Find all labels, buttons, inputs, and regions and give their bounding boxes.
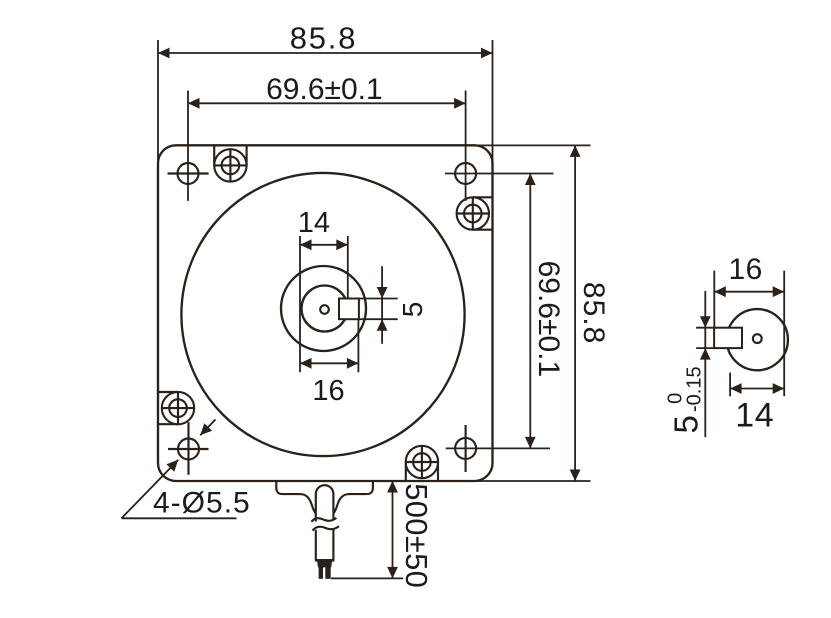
svg-text:500±50: 500±50	[399, 483, 434, 588]
cable skirt right	[333, 481, 373, 514]
side dim 5 tolerance: dimension line	[704, 291, 706, 437]
dim 500: extension line at wire end	[331, 577, 403, 579]
shaft boss circle	[281, 266, 366, 351]
svg-text:5: 5	[668, 415, 705, 433]
cable break squiggle upper	[312, 518, 337, 522]
svg-text:5: 5	[397, 302, 428, 318]
dim 69.6 top: extension lines	[188, 91, 466, 201]
crosshair bottom-left hole	[168, 422, 209, 475]
arrow 16 left	[300, 358, 312, 369]
cable break squiggle lower	[313, 526, 340, 530]
dim 69.6 top: dimension line	[188, 102, 466, 104]
boss bottom-right	[406, 446, 438, 478]
key rectangle on shaft	[339, 299, 359, 320]
arrow right-69.6 down	[525, 437, 536, 449]
dim 16: extension line	[357, 320, 359, 373]
cable tube lower	[316, 528, 334, 560]
bracket boss top-left	[214, 145, 246, 165]
dim 85.8 top: dimension line	[158, 52, 493, 54]
side dim 16: dimension line	[714, 291, 784, 293]
arrow 5 up	[377, 319, 388, 331]
dim 500: dimension line	[392, 481, 394, 578]
shaft circle	[302, 286, 348, 332]
pilot circle (motor face)	[181, 173, 464, 456]
arrow side-5 down	[700, 316, 711, 328]
motor body outline	[158, 145, 493, 481]
arrow 500 down	[387, 567, 398, 579]
cable tube bottom bar	[315, 559, 334, 562]
dim 85.8 top: extension lines	[158, 40, 493, 163]
arrow 14 right	[336, 239, 348, 250]
cable cap block	[318, 562, 331, 567]
dim 14: dimension line	[300, 244, 348, 246]
crosshair bottom-right hole vertical	[465, 425, 467, 472]
arrow short leader	[200, 423, 212, 435]
bracket boss top-right	[473, 197, 493, 229]
svg-text:85.8: 85.8	[577, 282, 610, 344]
crosshair top-left hole	[168, 172, 209, 174]
arrow side-14 right	[773, 383, 785, 394]
arrow right-85.8 down	[570, 470, 581, 482]
mounting hole top-left	[178, 163, 199, 184]
side dim 16: extension lines	[714, 271, 784, 397]
crosshair boss top-left	[214, 149, 248, 183]
boss top-left	[214, 149, 246, 181]
arrow 5 down	[377, 287, 388, 299]
arrow right-85.8 up	[570, 145, 581, 157]
svg-text:14: 14	[298, 207, 330, 239]
shaft center dot	[320, 305, 329, 314]
svg-text:14: 14	[735, 397, 774, 435]
arrow side-16 left	[714, 286, 726, 297]
arrow side-5 up	[700, 348, 711, 360]
cable skirt left	[276, 481, 316, 514]
arrow 69.6 right	[454, 98, 466, 109]
arrow 16 right	[347, 358, 359, 369]
svg-text:69.6±0.1: 69.6±0.1	[532, 261, 565, 378]
arrow 14 left	[300, 239, 312, 250]
arrow 69.6 left	[188, 98, 200, 109]
dim 5 key: dimension line	[381, 266, 383, 344]
arrow 85.8 left	[158, 48, 170, 59]
svg-text:4-Ø5.5: 4-Ø5.5	[153, 486, 251, 519]
bracket boss bottom-right	[406, 462, 438, 481]
dim 5 key: extension lines	[359, 299, 398, 320]
right 69.6 vertical: extension lines through holes	[445, 174, 554, 449]
dim 16: dimension line	[300, 362, 358, 364]
side dim 14: dimension line	[730, 388, 784, 390]
right 85.8 vertical: dimension line	[574, 145, 576, 481]
arrow side-16 right	[773, 286, 785, 297]
svg-text:16: 16	[312, 375, 344, 407]
boss top-right	[457, 197, 489, 229]
arrow side-14 left	[730, 383, 742, 394]
side view shaft circle	[727, 309, 788, 370]
mounting hole top-right	[455, 163, 476, 184]
side view key rectangle	[714, 328, 742, 348]
side dim 14: extension line	[729, 373, 731, 397]
short leader arrow line	[200, 420, 215, 436]
right 85.8 vertical: extension lines	[474, 145, 591, 481]
side dim 5 tolerance: ticks	[696, 328, 716, 348]
right 69.6 vertical: dimension line	[529, 174, 531, 449]
svg-text:69.6±0.1: 69.6±0.1	[266, 73, 383, 106]
crosshair boss bottom-right	[405, 445, 439, 479]
arrow right-69.6 up	[525, 174, 536, 186]
mounting hole bottom-right	[455, 438, 476, 459]
wire strands	[319, 566, 323, 579]
arrow 500 up	[387, 481, 398, 493]
dim 14: extension lines	[300, 236, 348, 372]
crosshair boss bottom-left	[161, 391, 195, 425]
svg-text:85.8: 85.8	[290, 21, 358, 56]
mounting hole bottom-left	[178, 439, 199, 460]
cable tube upper with dome	[316, 485, 334, 521]
bracket boss bottom-left	[158, 392, 178, 424]
svg-text:16: 16	[729, 253, 763, 286]
side view center dot	[753, 334, 762, 343]
arrow 85.8 right	[481, 48, 493, 59]
boss bottom-left	[162, 392, 194, 424]
svg-text:-0.15: -0.15	[684, 366, 706, 412]
crosshair boss top-right	[456, 197, 490, 231]
arrow leader 4-O5.5	[166, 460, 178, 472]
leader line 4-O5.5	[122, 460, 237, 519]
